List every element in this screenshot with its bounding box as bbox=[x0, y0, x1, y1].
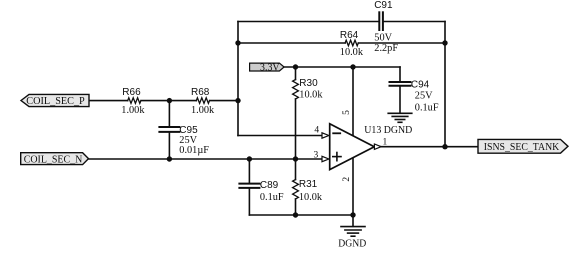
svg-text:1.00k: 1.00k bbox=[191, 105, 215, 116]
junction node R64-C91 right bbox=[442, 40, 447, 45]
svg-text:0.01µF: 0.01µF bbox=[179, 145, 209, 156]
net flag ISNS_SEC_TANK bbox=[478, 139, 568, 153]
svg-text:5: 5 bbox=[342, 110, 352, 115]
resistor R30 bbox=[293, 67, 299, 159]
wire R64 row right bbox=[359, 42, 446, 44]
junction node 3.3V-R30 bbox=[293, 64, 298, 69]
svg-text:ISNS_SEC_TANK: ISNS_SEC_TANK bbox=[484, 141, 560, 153]
svg-text:R68: R68 bbox=[191, 87, 210, 98]
junction node C95 top bbox=[167, 98, 172, 103]
wire 3.3V rail bbox=[284, 66, 400, 68]
svg-text:1: 1 bbox=[383, 138, 388, 148]
wire COIL_SEC_N row to pin3 bbox=[89, 158, 322, 160]
junction node R64-C91 left bbox=[235, 40, 240, 45]
capacitor C91 bbox=[379, 12, 383, 30]
svg-text:DGND: DGND bbox=[338, 239, 367, 250]
ground DGND at C94 bbox=[388, 113, 412, 122]
junction node R31 bottom bbox=[293, 212, 298, 217]
ground DGND main bbox=[341, 227, 365, 237]
junction node C95 bottom bbox=[167, 156, 172, 161]
svg-text:R66: R66 bbox=[122, 87, 141, 98]
capacitor C89 bbox=[239, 159, 259, 215]
wire pin4 horizontal bbox=[238, 135, 322, 137]
net flag COIL_SEC_P bbox=[21, 94, 89, 106]
op-amp minus sign bbox=[333, 132, 340, 134]
pin 1 output arrow bbox=[374, 144, 381, 149]
net flag COIL_SEC_N bbox=[21, 153, 89, 165]
resistor R68 bbox=[196, 98, 209, 104]
svg-text:2: 2 bbox=[342, 177, 352, 182]
op-amp U13 triangle bbox=[330, 124, 375, 170]
svg-text:3: 3 bbox=[314, 150, 319, 160]
op-amp plus sign bbox=[333, 153, 341, 161]
wire output row bbox=[381, 146, 478, 148]
resistor R64 bbox=[345, 40, 358, 46]
junction node C89 top bbox=[247, 156, 252, 161]
power flag 3.3V bbox=[250, 63, 285, 71]
resistor R31 bbox=[293, 159, 299, 215]
svg-text:10.0k: 10.0k bbox=[340, 47, 364, 58]
svg-text:C94: C94 bbox=[411, 79, 430, 90]
wire feedback left vertical bbox=[237, 22, 239, 136]
svg-text:10.0k: 10.0k bbox=[299, 89, 323, 100]
svg-text:3.3V: 3.3V bbox=[260, 61, 280, 73]
svg-text:COIL_SEC_N: COIL_SEC_N bbox=[24, 153, 83, 165]
svg-text:0.1uF: 0.1uF bbox=[415, 102, 439, 113]
wire pin5 vertical bbox=[352, 67, 354, 135]
capacitor C95 bbox=[159, 101, 179, 159]
svg-text:10.0k: 10.0k bbox=[299, 192, 323, 203]
svg-text:C89: C89 bbox=[260, 180, 279, 191]
wire top feedback right segment bbox=[383, 21, 445, 23]
wire top feedback left segment bbox=[238, 21, 379, 23]
wire feedback right vertical bbox=[444, 22, 446, 147]
svg-text:U13 DGND: U13 DGND bbox=[364, 125, 413, 136]
resistor R66 bbox=[128, 98, 141, 104]
svg-text:R30: R30 bbox=[299, 78, 318, 89]
svg-text:4: 4 bbox=[314, 126, 319, 136]
svg-text:1.00k: 1.00k bbox=[121, 105, 145, 116]
pin 4 arrow bbox=[322, 133, 329, 138]
junction node R68 to feedback bbox=[235, 98, 240, 103]
wire COIL_SEC_P row bbox=[89, 100, 238, 102]
junction node pin2-ground bbox=[350, 212, 355, 217]
svg-text:R64: R64 bbox=[340, 30, 359, 41]
svg-text:25V: 25V bbox=[415, 91, 433, 102]
wire pin2 vertical bbox=[352, 158, 354, 215]
svg-text:COIL_SEC_P: COIL_SEC_P bbox=[26, 95, 85, 107]
junction node R30-R31-pin3 bbox=[293, 156, 298, 161]
pin 3 arrow bbox=[322, 156, 329, 161]
wire R64 row left bbox=[238, 42, 345, 44]
capacitor C94 bbox=[390, 67, 411, 113]
junction node output-feedback bbox=[442, 144, 447, 149]
svg-text:0.1uF: 0.1uF bbox=[260, 192, 284, 203]
junction node rail-pin5 bbox=[350, 64, 355, 69]
wire ground stem bbox=[352, 215, 354, 226]
svg-text:2.2pF: 2.2pF bbox=[374, 43, 398, 54]
svg-text:C91: C91 bbox=[374, 0, 393, 11]
svg-text:R31: R31 bbox=[299, 179, 318, 190]
wire bottom row bbox=[249, 214, 353, 216]
svg-text:50V: 50V bbox=[374, 33, 392, 44]
